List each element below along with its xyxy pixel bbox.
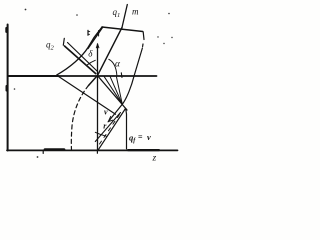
dash-dot axis between B lines bbox=[100, 112, 122, 145]
quadrilateral right edge solid bbox=[134, 48, 142, 76]
second line from near B bbox=[95, 113, 120, 142]
quadrilateral left edge bbox=[88, 27, 103, 49]
fan line 1 bbox=[104, 76, 122, 104]
line B to P bbox=[98, 109, 126, 151]
svg-text:v: v bbox=[147, 132, 151, 142]
v arrowhead bbox=[108, 116, 112, 121]
big arc from crystal corner to interface bbox=[57, 27, 102, 75]
refracted ray below interface L1 bbox=[58, 76, 116, 115]
junction stub down-left bbox=[89, 76, 98, 86]
speck dots bbox=[14, 9, 173, 158]
alpha angle arc bbox=[109, 59, 117, 75]
quadrilateral top edge bbox=[102, 27, 143, 32]
q1 line above crystal face bbox=[122, 5, 127, 28]
main diagonal J to P extended bbox=[98, 76, 127, 110]
small angle arc near B bbox=[95, 132, 106, 136]
svg-text:v: v bbox=[104, 108, 108, 117]
svg-text:z: z bbox=[152, 154, 157, 164]
q2 double line upper stroke bbox=[68, 43, 98, 72]
bottom tick at B bbox=[96, 150, 98, 153]
vertical arrow above junction bbox=[97, 44, 99, 76]
quadrilateral right edge dash dot bbox=[142, 44, 144, 47]
bottom axis thick segment bbox=[45, 148, 64, 151]
fan line 2 bbox=[110, 76, 122, 104]
vertical line below junction bbox=[97, 76, 99, 151]
dash above vertical arrow bbox=[98, 31, 100, 37]
axis tick upper bbox=[5, 28, 8, 31]
v group velocity arrow bbox=[108, 104, 122, 121]
q2 double line lower stroke bbox=[65, 46, 96, 74]
bottom tick x=43 bbox=[42, 150, 44, 153]
svg-text:m: m bbox=[132, 7, 139, 17]
tick on interface x=121 bbox=[120, 73, 123, 78]
q1 refracted line inside crystal bbox=[98, 28, 123, 76]
dashed trajectory curve bbox=[71, 86, 88, 151]
axis tick lower bbox=[6, 86, 9, 90]
middle horizontal line (interface) bbox=[8, 75, 157, 77]
quadrilateral right edge dashed part bbox=[142, 32, 145, 40]
svg-text:=: = bbox=[138, 133, 143, 142]
small mark left of arc bbox=[87, 30, 89, 35]
right short vertical line bbox=[125, 109, 128, 149]
delta angle arc bbox=[87, 60, 95, 65]
fan line 3 bbox=[117, 77, 123, 104]
bottom axis z bbox=[7, 149, 178, 151]
right edge arc continuation to P bbox=[122, 76, 134, 104]
arrowhead of vertical arrow bbox=[96, 44, 99, 48]
bottom axis thick segment right bbox=[128, 149, 159, 151]
left vertical axis bbox=[7, 25, 9, 151]
middle line thicker left part bbox=[8, 75, 58, 77]
q2 tick bbox=[63, 38, 64, 45]
